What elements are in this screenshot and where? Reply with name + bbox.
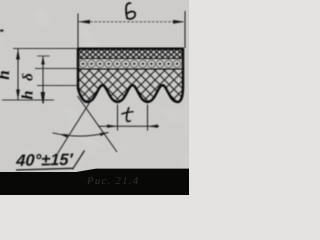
node b label	[126, 3, 135, 19]
belt top band cross-hatch	[78, 49, 183, 59]
belt outline	[78, 49, 183, 102]
wire: tip-level extension line	[2, 99, 54, 101]
wire: h dimension line (outer)	[17, 49, 19, 101]
wire: top extension line to left dims	[13, 48, 80, 50]
belt top band bottom line	[78, 58, 183, 60]
cord circles	[79, 60, 181, 68]
wire: b arrow right	[173, 20, 185, 24]
wire: 40 deg underline	[16, 168, 73, 170]
wire: angle flank line left (extension of tooth right flank)	[58, 94, 96, 154]
wire: inner dimension line	[42, 56, 44, 100]
paper background	[0, 0, 189, 195]
belt body cross-hatch	[78, 69, 183, 105]
wire: t arrow right outside	[148, 125, 158, 128]
wire: angle arc arrow right	[100, 132, 108, 136]
wire: inner arrow down	[41, 92, 45, 104]
wire: extension line left of b dimension	[77, 14, 79, 49]
film grain	[0, 0, 189, 195]
wire: h arrow up	[16, 49, 20, 60]
wire: t extension line right	[147, 105, 149, 131]
wire: 40 deg leader slash	[73, 151, 85, 170]
cord center dots	[82, 63, 179, 66]
wire: b dimension line	[78, 21, 185, 23]
wire: t extension line left	[117, 105, 119, 131]
wire: extension line right of b dimension	[184, 11, 186, 48]
wire: angle arc arrow left	[60, 134, 69, 138]
wire: h arrow down	[16, 90, 20, 100]
wire: valley-level extension line	[37, 85, 79, 87]
wire: inner arrow up	[41, 56, 45, 65]
wire: angle flank line right (extension of tooth left flank)	[78, 96, 118, 152]
node t label	[122, 108, 133, 122]
wire: b arrow left	[78, 20, 90, 24]
wire: angle arc	[53, 133, 109, 137]
speck on left edge	[0, 30, 4, 32]
wire: t dimension line	[98, 125, 159, 127]
scan blotches	[0, 0, 189, 195]
wire: delta top tick	[37, 55, 50, 57]
belt cord layer bottom line	[78, 68, 183, 70]
caption black band	[0, 169, 189, 195]
wire: t arrow left outside	[107, 125, 117, 128]
wire: cord-bottom extension line	[35, 68, 79, 70]
